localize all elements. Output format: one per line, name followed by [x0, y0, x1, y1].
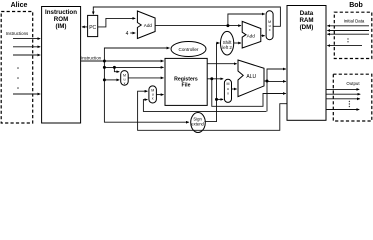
svg-text:x: x: [124, 81, 126, 85]
svg-text:Add: Add: [247, 34, 256, 39]
svg-text:M: M: [227, 82, 230, 86]
svg-text:Instructions: Instructions: [6, 31, 29, 36]
svg-text:Controller: Controller: [179, 47, 199, 52]
svg-text:Bob: Bob: [349, 2, 363, 9]
svg-text:PC: PC: [89, 25, 96, 31]
svg-text:Output: Output: [346, 81, 360, 86]
svg-text:u: u: [227, 87, 229, 91]
svg-text:(DM): (DM): [300, 24, 314, 31]
svg-text:ROM: ROM: [54, 16, 68, 23]
svg-text:left 2: left 2: [222, 45, 232, 50]
svg-text:x: x: [152, 97, 154, 101]
svg-text:extend: extend: [191, 122, 204, 127]
svg-text:(IM): (IM): [56, 23, 67, 30]
svg-text:x: x: [269, 28, 271, 32]
svg-text:File: File: [182, 82, 191, 88]
svg-text:Instruction: Instruction: [81, 55, 102, 60]
svg-text:Instruction: Instruction: [45, 9, 77, 16]
svg-text:4: 4: [126, 31, 129, 37]
svg-text:Initial Data: Initial Data: [344, 19, 365, 24]
svg-text:RAM: RAM: [299, 17, 313, 24]
svg-text:Alice: Alice: [11, 2, 28, 9]
svg-text:x: x: [227, 91, 229, 95]
svg-text:Data: Data: [300, 10, 314, 17]
svg-text:Add: Add: [144, 23, 153, 28]
svg-text:ALU: ALU: [246, 74, 256, 80]
